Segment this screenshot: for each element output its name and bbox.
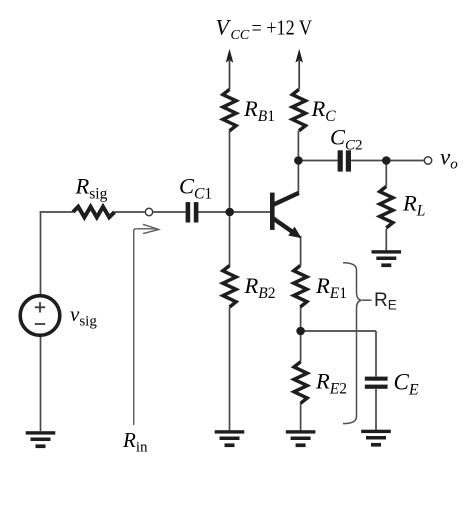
svg-text:CC2: CC2: [330, 125, 363, 154]
svg-text:CE: CE: [394, 370, 419, 399]
svg-text:RE2: RE2: [315, 369, 347, 398]
svg-text:V: V: [216, 15, 232, 40]
svg-text:Rsig: Rsig: [75, 174, 108, 203]
svg-text:RB2: RB2: [244, 273, 276, 302]
svg-text:RB1: RB1: [243, 96, 275, 125]
svg-text:RE: RE: [374, 290, 397, 313]
svg-text:vsig: vsig: [70, 302, 97, 330]
svg-text:Rin: Rin: [122, 428, 148, 456]
svg-text:RC: RC: [311, 96, 337, 125]
svg-text:RL: RL: [402, 191, 425, 220]
svg-text:= +12 V: = +12 V: [252, 16, 313, 40]
svg-text:CC: CC: [231, 28, 250, 43]
svg-text:vo: vo: [440, 145, 458, 173]
svg-text:CC1: CC1: [179, 174, 212, 203]
svg-text:RE1: RE1: [315, 273, 347, 302]
